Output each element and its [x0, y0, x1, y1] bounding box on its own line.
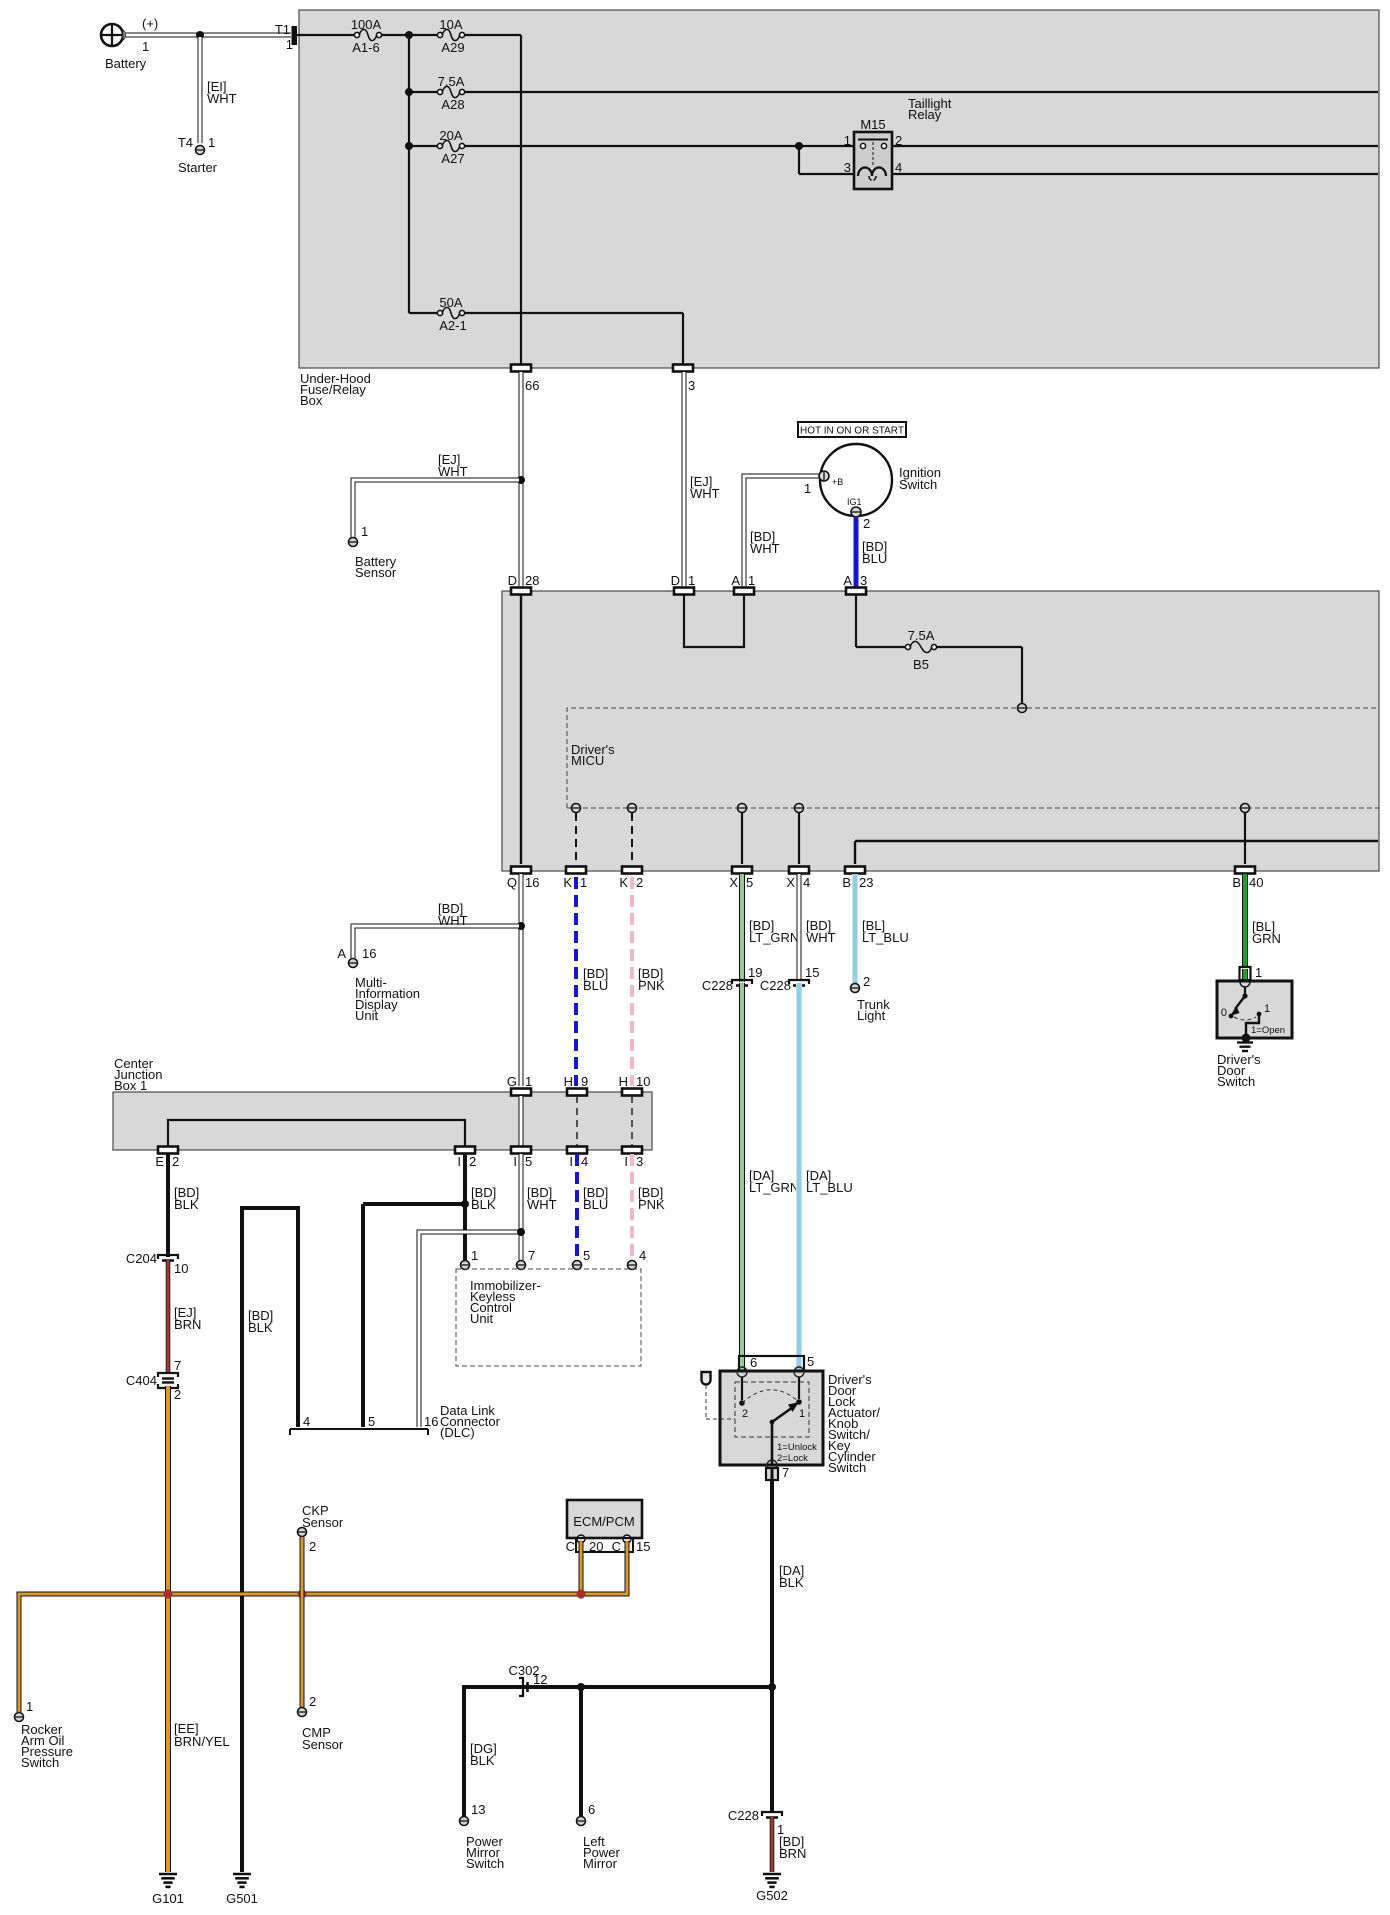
svg-text:5: 5 — [525, 1154, 532, 1169]
actuator arm to pin 7 — [771, 1422, 774, 1464]
wire pin to K2 dashed — [631, 813, 633, 864]
I4 labels — [569, 1154, 588, 1169]
svg-text:3: 3 — [636, 1154, 643, 1169]
svg-text:BLU: BLU — [583, 1197, 608, 1212]
svg-text:2: 2 — [309, 1539, 316, 1554]
svg-text:Box 1: Box 1 — [114, 1078, 147, 1093]
wire K2 to H10 [BD] PNK dashed — [630, 877, 634, 1086]
label [BD] BLK E2 — [174, 1185, 199, 1212]
wire C228 to G502 [BD] BRN — [770, 1817, 775, 1872]
svg-text:A29: A29 — [441, 40, 464, 55]
svg-text:T4: T4 — [178, 135, 193, 150]
svg-text:MICU: MICU — [571, 753, 604, 768]
H9 labels — [564, 1074, 589, 1089]
svg-text:10: 10 — [636, 1074, 650, 1089]
svg-text:WHT: WHT — [438, 913, 468, 928]
battery sensor labels — [355, 524, 397, 580]
svg-text:I: I — [624, 1154, 628, 1169]
svg-text:2: 2 — [309, 1694, 316, 1709]
junction node DLC16 — [517, 1228, 525, 1236]
ECM/PCM label — [573, 1514, 634, 1529]
X5 labels — [729, 875, 753, 890]
svg-text:Switch: Switch — [899, 477, 937, 492]
svg-text:Switch: Switch — [828, 1460, 866, 1475]
A3 labels — [843, 573, 867, 588]
trunk light pin 2 — [851, 984, 860, 993]
svg-text:WHT: WHT — [750, 541, 780, 556]
wire relay pin 4 output — [892, 173, 1378, 175]
svg-text:16: 16 — [424, 1414, 438, 1429]
label [BD] PNK I3 — [638, 1185, 665, 1212]
rocker pin label — [26, 1699, 33, 1714]
svg-text:1: 1 — [208, 135, 215, 150]
label [DA] LT_BLU — [806, 1168, 853, 1195]
label [BD] WHT X4 — [806, 918, 836, 945]
svg-text:10A: 10A — [439, 17, 462, 32]
svg-text:Switch: Switch — [21, 1755, 59, 1770]
svg-text:1: 1 — [142, 39, 149, 54]
wire Q16 to G1 — [519, 874, 524, 1086]
junction node 7.5A branch — [405, 88, 413, 96]
wire to battery sensor — [353, 480, 519, 538]
B40 labels — [1232, 875, 1263, 890]
junction node MID unit — [517, 922, 525, 930]
connector T1 pin 1 — [292, 26, 298, 45]
svg-text:BLK: BLK — [471, 1197, 496, 1212]
junction node relay coil branch — [795, 142, 803, 150]
svg-text:G: G — [507, 1074, 517, 1089]
wire E2 to I2 internal — [168, 1120, 465, 1146]
CKP pin label — [309, 1539, 316, 1554]
immobilizer pin 4 label — [639, 1248, 646, 1263]
actuator mode labels — [777, 1442, 817, 1464]
svg-text:ECM/PCM: ECM/PCM — [573, 1514, 634, 1529]
svg-text:12: 12 — [533, 1672, 547, 1687]
CMP sensor pin 2 — [298, 1708, 307, 1717]
connector K2 — [622, 867, 642, 874]
rocker arm oil pressure switch pin 1 — [15, 1713, 24, 1722]
svg-text:M15: M15 — [860, 117, 885, 132]
wire pin to K1 dashed — [575, 813, 577, 864]
svg-text:2: 2 — [895, 133, 902, 148]
MICU pin B40 — [1241, 804, 1250, 813]
MICU ignition feed pin — [1018, 704, 1027, 713]
under-hood fuse/relay box — [299, 10, 1379, 368]
svg-text:BRN/YEL: BRN/YEL — [174, 1734, 230, 1749]
wire A3 to fuse B5 — [856, 594, 905, 647]
svg-text:7: 7 — [782, 1465, 789, 1480]
ECM terminal C15 — [623, 1535, 631, 1543]
svg-text:A2-1: A2-1 — [439, 318, 466, 333]
svg-text:PNK: PNK — [638, 978, 665, 993]
svg-text:15: 15 — [636, 1539, 650, 1554]
power mirror bus wire — [464, 1687, 772, 1816]
ignition switch body — [820, 444, 892, 516]
driver's door switch ground — [1237, 1043, 1253, 1052]
wire battery to T1 — [126, 33, 291, 38]
svg-text:Sensor: Sensor — [302, 1515, 344, 1530]
svg-text:2: 2 — [863, 516, 870, 531]
label [BD] BLK I2 — [471, 1185, 496, 1212]
connector E2 — [158, 1147, 178, 1154]
label [EI] WHT — [207, 79, 237, 106]
wire H10 to I3 internal dashed — [631, 1096, 633, 1146]
svg-text:Switch: Switch — [466, 1856, 504, 1871]
immobilizer pin 1 label — [471, 1248, 478, 1263]
connector D28 — [511, 588, 531, 595]
actuator terminal 6 — [737, 1367, 747, 1377]
label [DA] LT_GRN — [749, 1168, 799, 1195]
svg-text:LT_BLU: LT_BLU — [806, 1180, 853, 1195]
fuse A28 7.5A — [437, 86, 464, 97]
wire C204 to C404 [EJ] BRN — [166, 1260, 171, 1374]
connector K1 — [566, 867, 586, 874]
svg-text:C404: C404 — [126, 1373, 157, 1388]
svg-text:0: 0 — [1221, 1007, 1227, 1019]
junction node battery sensor — [517, 476, 525, 484]
svg-text:G101: G101 — [152, 1891, 184, 1906]
svg-text:LT_BLU: LT_BLU — [862, 930, 909, 945]
svg-text:+B: +B — [832, 477, 843, 487]
multi-information display name — [355, 975, 420, 1023]
svg-text:6: 6 — [750, 1355, 757, 1370]
label [BL] LT_BLU — [862, 918, 909, 945]
connector I2 — [455, 1147, 475, 1154]
wire terminal6 to contact 2 — [741, 1377, 743, 1400]
svg-text:16: 16 — [525, 875, 539, 890]
svg-text:H: H — [619, 1074, 628, 1089]
A1 labels — [731, 573, 755, 588]
data link connector name — [440, 1403, 501, 1440]
svg-text:Q: Q — [507, 875, 517, 890]
svg-text:G502: G502 — [756, 1888, 788, 1903]
connector A3 — [846, 588, 866, 595]
driver's door switch name — [1217, 1052, 1261, 1089]
svg-text:D: D — [671, 573, 680, 588]
svg-text:A28: A28 — [441, 97, 464, 112]
svg-text:C228: C228 — [702, 978, 733, 993]
inline connector C228 (X4) — [789, 980, 809, 986]
svg-text:WHT: WHT — [527, 1197, 557, 1212]
label [DA] BLK — [779, 1563, 804, 1590]
svg-text:WHT: WHT — [806, 930, 836, 945]
wire CKP to CMP — [300, 1537, 305, 1707]
svg-text:B: B — [842, 875, 851, 890]
svg-text:BRN: BRN — [174, 1317, 201, 1332]
wire to fuse A27 — [409, 145, 438, 147]
E2 labels — [155, 1154, 179, 1169]
fuse B5 7.5A — [905, 641, 936, 652]
wire relay pin 2 output — [892, 145, 1378, 147]
immobilizer pin 7 label — [528, 1248, 535, 1263]
DLC pin labels — [303, 1414, 438, 1429]
door switch wire to ground — [1246, 1014, 1259, 1036]
svg-text:BLK: BLK — [470, 1753, 495, 1768]
junction node battery/starter — [196, 31, 204, 39]
wire IG1 to A3 [BD] BLU — [854, 517, 859, 587]
svg-text:D: D — [508, 573, 517, 588]
svg-text:IG1: IG1 — [847, 497, 862, 507]
driver's MICU gray box — [502, 591, 1379, 871]
left power mirror pin 6 — [577, 1817, 586, 1826]
fuse A1-6 labels — [351, 17, 382, 55]
junction node left power mirror — [577, 1683, 585, 1691]
svg-text:4: 4 — [803, 875, 810, 890]
rocker arm oil pressure switch name — [21, 1722, 73, 1770]
label [BD] BLK G501 — [248, 1308, 273, 1335]
label [BD] PNK K2 — [638, 966, 665, 993]
bus vertical wire — [408, 35, 410, 313]
svg-text:Switch: Switch — [1217, 1074, 1255, 1089]
left power mirror name — [583, 1834, 621, 1871]
starter labels — [178, 135, 218, 175]
svg-text:7.5A: 7.5A — [438, 74, 465, 89]
MICU internal dashed boundary — [567, 708, 1379, 808]
taillight relay M15 — [854, 132, 892, 189]
svg-text:10: 10 — [174, 1261, 188, 1276]
door switch ground node — [1242, 1034, 1251, 1043]
connector X4 — [789, 867, 809, 874]
svg-text:1=Unlock: 1=Unlock — [777, 1442, 817, 1453]
relay M15 labels — [844, 117, 902, 175]
MICU pin K1 — [572, 804, 581, 813]
fuse B5 labels — [908, 628, 935, 672]
svg-text:2: 2 — [636, 875, 643, 890]
svg-text:HOT IN ON OR START: HOT IN ON OR START — [800, 426, 904, 437]
door switch arm — [1230, 996, 1245, 1016]
Q16 labels — [507, 875, 540, 890]
svg-text:BLK: BLK — [174, 1197, 199, 1212]
driver's MICU label — [571, 742, 615, 768]
fuse A29 10A — [437, 29, 464, 40]
svg-text:BLU: BLU — [862, 551, 887, 566]
svg-text:7.5A: 7.5A — [908, 628, 935, 643]
immobilizer pin 5 label — [583, 1248, 590, 1263]
driver's door switch box — [1217, 981, 1292, 1038]
multi-information display pin A16 — [349, 959, 358, 968]
key cylinder dashed link — [706, 1385, 735, 1419]
ignition IG1 pin 2 — [851, 507, 861, 517]
wire to DLC pin 5 — [363, 1204, 465, 1427]
immobilizer pin 1 — [461, 1261, 470, 1270]
svg-text:B: B — [1232, 875, 1241, 890]
X4 labels — [786, 875, 810, 890]
wire C228 to actuator 6 [DA] LT_GRN — [739, 983, 745, 1358]
fuse A27 labels — [439, 128, 464, 166]
wire T1 to fuse A1-6 — [297, 34, 354, 36]
fuse A2-1 labels — [439, 295, 466, 333]
label [BD] BLU I4 — [583, 1185, 608, 1212]
ECM terminal C20 — [577, 1535, 585, 1543]
fuse A1-6 100A — [354, 29, 381, 40]
svg-text:(+): (+) — [142, 16, 158, 31]
svg-text:13: 13 — [471, 1802, 485, 1817]
svg-text:66: 66 — [525, 378, 539, 393]
wire DLC16 to I5 wire — [419, 1232, 519, 1427]
wire 6 through header — [739, 1357, 745, 1372]
fuse A28 labels — [438, 74, 465, 112]
inline connector C228 (X5) — [732, 980, 752, 986]
connector 66 — [511, 365, 531, 372]
junction node bus top — [405, 31, 413, 39]
svg-text:T1: T1 — [275, 22, 290, 37]
label 66 — [525, 378, 539, 393]
label [BD] WHT A1 — [750, 529, 780, 556]
IG1 labels — [847, 497, 870, 531]
junction node actuator ground wire — [768, 1683, 776, 1691]
connector A1 — [734, 588, 754, 595]
label [BD] BLU K1 — [583, 966, 608, 993]
svg-text:E: E — [155, 1154, 164, 1169]
svg-text:3: 3 — [860, 573, 867, 588]
wire ignition +B to A1 — [744, 476, 820, 586]
label [BD] WHT MID — [438, 901, 468, 928]
actuator terminal 7 — [767, 1460, 777, 1470]
B23 labels — [842, 875, 873, 890]
+B labels — [804, 477, 843, 496]
svg-text:23: 23 — [859, 875, 873, 890]
actuator contact 2 — [739, 1400, 748, 1420]
connector H10 — [622, 1089, 642, 1096]
power mirror switch name — [466, 1834, 504, 1871]
svg-text:5: 5 — [368, 1414, 375, 1429]
svg-text:16: 16 — [362, 946, 376, 961]
wire fuse A1-6 to A29 — [382, 34, 438, 36]
wire to fuse A2-1 — [409, 312, 438, 314]
wire to fuse A28 — [409, 91, 438, 93]
svg-text:4: 4 — [639, 1248, 646, 1263]
wire 66 to D28 — [519, 372, 524, 586]
driver's door lock actuator name — [828, 1372, 880, 1475]
svg-text:1: 1 — [748, 573, 755, 588]
battery sensor pin 1 — [349, 538, 358, 547]
svg-text:15: 15 — [805, 965, 819, 980]
inline connector C204 — [158, 1255, 178, 1261]
svg-text:1: 1 — [799, 1408, 805, 1420]
svg-text:A: A — [337, 946, 346, 961]
taillight relay name — [908, 96, 952, 122]
door switch position 1 — [1257, 1003, 1271, 1016]
wire pin to B40 — [1244, 813, 1246, 864]
svg-text:Light: Light — [857, 1008, 886, 1023]
svg-text:H: H — [564, 1074, 573, 1089]
connector I3 — [622, 1147, 642, 1154]
header pin labels — [750, 1354, 814, 1370]
svg-text:LT_GRN: LT_GRN — [749, 930, 799, 945]
svg-text:1: 1 — [286, 37, 293, 52]
wire C228 to actuator 5 [DA] LT_BLU — [796, 983, 802, 1358]
wire fuse A29 to connector 66 — [465, 35, 521, 364]
junction node C20 — [576, 1589, 585, 1598]
C204 labels — [126, 1251, 189, 1276]
svg-text:A27: A27 — [441, 151, 464, 166]
fuse A2-1 50A — [437, 307, 464, 318]
under-hood fuse/relay box label — [300, 371, 371, 408]
svg-text:Sensor: Sensor — [302, 1737, 344, 1752]
svg-text:LT_GRN: LT_GRN — [749, 1180, 799, 1195]
G502 ground — [763, 1874, 781, 1887]
svg-text:A1-6: A1-6 — [352, 40, 379, 55]
hot-in-on-or-start box — [798, 422, 906, 437]
C228 ground labels — [728, 1808, 784, 1837]
junction node CKP/CMP — [297, 1589, 306, 1598]
door switch dashed arc — [1234, 1017, 1256, 1020]
wire fuse A27 to relay — [465, 145, 853, 147]
CMP pin label — [309, 1694, 316, 1709]
svg-text:1: 1 — [844, 133, 851, 148]
svg-text:C: C — [566, 1539, 575, 1554]
G501 label — [226, 1891, 258, 1906]
svg-text:C204: C204 — [126, 1251, 157, 1266]
fuse A27 20A — [437, 140, 464, 151]
MICU pin X4 — [795, 804, 804, 813]
svg-text:BLK: BLK — [779, 1575, 804, 1590]
svg-text:Mirror: Mirror — [583, 1856, 618, 1871]
CMP sensor name — [302, 1725, 344, 1752]
svg-text:5: 5 — [583, 1248, 590, 1263]
power mirror switch pin 13 — [460, 1817, 469, 1826]
junction node DLC5 branch — [461, 1200, 469, 1208]
label [BL] GRN — [1252, 919, 1281, 946]
G101 ground — [159, 1874, 177, 1887]
T1 labels — [275, 22, 293, 52]
connector H9 — [567, 1089, 587, 1096]
ECM connector row — [576, 1538, 633, 1552]
svg-text:Unit: Unit — [355, 1008, 379, 1023]
immobilizer unit name — [470, 1278, 541, 1326]
actuator dashed arc — [742, 1390, 799, 1403]
connector G1 — [511, 1089, 531, 1096]
svg-text:Battery: Battery — [105, 56, 147, 71]
wire actuator to C228 [DA] BLK — [770, 1480, 774, 1812]
svg-text:1: 1 — [361, 524, 368, 539]
label [EJ] BRN — [174, 1305, 201, 1332]
label [EJ] WHT D1 — [690, 474, 720, 501]
connector B23 — [845, 867, 865, 874]
data link connector bracket — [290, 1429, 428, 1435]
svg-text:6: 6 — [588, 1802, 595, 1817]
svg-text:50A: 50A — [439, 295, 462, 310]
H10 labels — [619, 1074, 651, 1089]
svg-text:3: 3 — [688, 378, 695, 393]
junction node 20A branch — [405, 142, 413, 150]
svg-text:4: 4 — [581, 1154, 588, 1169]
fuse A29 labels — [439, 17, 464, 55]
wire B23 to trunk light [BL] LT_BLU — [852, 874, 858, 983]
svg-text:5: 5 — [746, 875, 753, 890]
svg-text:I: I — [457, 1154, 461, 1169]
svg-text:20A: 20A — [439, 128, 462, 143]
wire fuse A2-1 to connector 3 — [465, 313, 683, 364]
svg-text:1: 1 — [1264, 1003, 1270, 1015]
wire to left power mirror — [579, 1687, 583, 1816]
wire C20 down — [579, 1541, 584, 1592]
svg-text:BLK: BLK — [248, 1320, 273, 1335]
MICU pin K2 — [628, 804, 637, 813]
wire H9 to I4 internal dashed — [576, 1096, 578, 1146]
svg-text:1: 1 — [580, 875, 587, 890]
svg-text:Sensor: Sensor — [355, 565, 397, 580]
wire I4 to immobilizer 5 [BD] BLU dashed — [575, 1154, 579, 1260]
C404 pin 7 label — [174, 1358, 181, 1373]
label [BD] WHT I5 — [527, 1185, 557, 1212]
svg-text:7: 7 — [528, 1248, 535, 1263]
door switch position 0 — [1221, 1007, 1234, 1019]
svg-text:WHT: WHT — [207, 91, 237, 106]
svg-text:C: C — [612, 1539, 621, 1554]
label [BD] LT_GRN — [749, 918, 799, 945]
svg-text:7: 7 — [174, 1358, 181, 1373]
